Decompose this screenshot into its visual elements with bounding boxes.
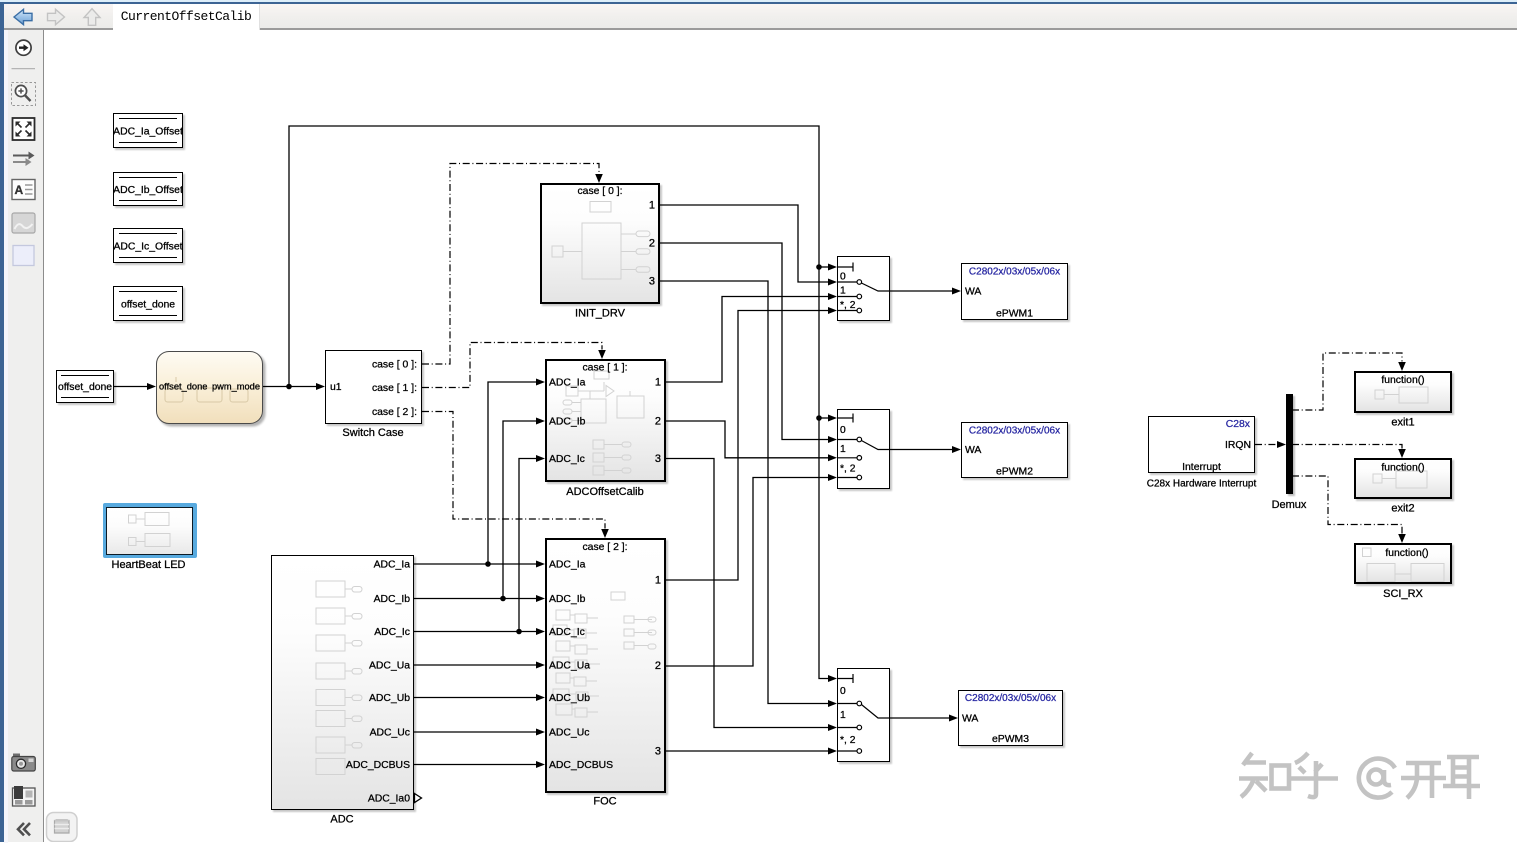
wire control trunk to switches [289, 126, 829, 679]
window chrome: top dark blue border [0, 2, 1517, 4]
data store read offset_done [56, 370, 114, 403]
block ePWM1 [961, 263, 1068, 320]
data store memory offset_done [113, 286, 183, 321]
wire control branch to switch2 [819, 417, 829, 419]
sidebar icon: light square [13, 246, 34, 266]
switch2 internals [838, 414, 853, 423]
ghost preview ADC [316, 581, 345, 597]
wire offset_done read to chart [114, 386, 148, 388]
ghost preview SCI_RX [1363, 548, 1372, 557]
wire INIT_DRV out3 to switch3 port0 [660, 281, 829, 704]
block ePWM3 [958, 690, 1063, 746]
window chrome: left dark blue border [0, 2, 4, 842]
dashdot case2 to FOC [422, 412, 605, 529]
wire ADCOffsetCalib out3 to switch3 port1 [666, 459, 829, 728]
ADC_Ia0 unconnected output port chevron [415, 794, 422, 803]
function-call subsystem exit2 [1354, 458, 1452, 499]
dashdot case0 to INIT_DRV [422, 164, 599, 365]
junction dots [286, 384, 292, 390]
navigation tab (active) CurrentOffsetCalib [113, 4, 260, 30]
wire ADC_Ub to FOC [414, 697, 537, 699]
wire switch1 to ePWM1 [890, 290, 953, 292]
sidebar icon: camera [13, 754, 20, 758]
subsystem ADCOffsetCalib [545, 359, 666, 482]
wire ADC_DCBUS to FOC [414, 764, 537, 766]
sidebar icon: collapse chevrons [18, 823, 30, 835]
toolbar background [4, 4, 1517, 28]
subsystem HeartBeat LED [106, 507, 193, 555]
left sidebar background [8, 30, 44, 842]
ghost preview ADCOffsetCalib [594, 371, 609, 379]
subsystem ADC [271, 555, 414, 810]
subsystem Switch Case [325, 350, 422, 424]
selection frame HeartBeat LED [103, 503, 197, 558]
bottom data button [47, 813, 78, 842]
subsystem FOC [545, 538, 666, 793]
toolbar up arrow (gray) [84, 9, 100, 26]
sidebar icon: zoom magnifier with dashed frame [12, 83, 36, 106]
arrowheads down-pointing [595, 174, 603, 183]
sidebar icon: double arrow [13, 155, 29, 157]
wire chart output to Switch Case u1 [263, 386, 317, 388]
function-call subsystem exit1 [1354, 371, 1452, 413]
sidebar separator [12, 68, 36, 70]
wire ADCOffsetCalib out1 to switch1 port1 [666, 297, 829, 383]
stateflow chart pwm_mode [156, 351, 263, 424]
multiport switch 2 [837, 409, 890, 489]
function-call subsystem SCI_RX [1354, 543, 1452, 584]
data store memory ADC_Ic_Offset [113, 228, 183, 263]
wire ADC_Ua to FOC [414, 664, 537, 666]
wire ADC_Ia to FOC and branch to ADCOffsetCalib [414, 382, 537, 564]
dashdot demux to SCI_RX [1292, 476, 1402, 534]
ghost preview exit1 [1375, 390, 1384, 399]
ghost preview chart (warm) [165, 377, 248, 402]
wire switch3 to ePWM3 [890, 717, 950, 719]
wire control branch to switch1 [819, 266, 829, 268]
wire ADCOffsetCalib out2 to switch2 port1 [666, 421, 829, 458]
demux bar [1286, 394, 1293, 494]
toolbar forward arrow (gray) [48, 9, 65, 24]
wire ADC_Uc to FOC [414, 731, 537, 733]
multiport switch 1 [837, 256, 890, 321]
data store memory ADC_Ib_Offset [113, 172, 183, 206]
block C28x Hardware Interrupt [1148, 416, 1255, 473]
ghost preview FOC [611, 592, 625, 600]
arrowheads right-pointing [147, 383, 156, 390]
switch3 internals [838, 674, 853, 683]
sidebar icon: image [12, 213, 35, 233]
switch1 internals [838, 263, 853, 272]
sidebar icon: circled arrow [16, 40, 31, 55]
dashdot demux to exit2 [1292, 445, 1402, 449]
window chrome: left inner light strip [4, 30, 8, 843]
wire ADC_Ic to FOC and branch [414, 459, 537, 632]
sidebar icon: model browser [13, 788, 36, 806]
wire ADC_Ib to FOC and branch [414, 421, 537, 599]
data store memory ADC_Ia_Offset [113, 113, 183, 148]
window chrome: top light strip [0, 0, 1517, 2]
sidebar icon: fit to view [13, 118, 35, 140]
dashdot case1 to ADCOffsetCalib [422, 343, 602, 388]
wire FOC out2 to switch2 port2 [666, 478, 829, 667]
ghost preview INIT_DRV [590, 202, 611, 213]
toolbar bottom separator line [4, 28, 1517, 29]
multiport switch 3 [837, 668, 890, 762]
sidebar icon: annotation A [12, 180, 35, 200]
block ePWM2 [961, 422, 1068, 478]
watermark 知乎 @开耳 [1239, 753, 1480, 799]
wire INIT_DRV out2 to switch2 port0 [660, 243, 829, 440]
ghost preview exit2 [1373, 474, 1382, 483]
wire INIT_DRV out1 to switch1 port0 [660, 205, 829, 282]
wire FOC out1 to switch1 port2 [666, 311, 829, 581]
dashdot IRQN to Demux [1255, 444, 1278, 446]
dashdot demux to exit1 [1292, 353, 1402, 410]
toolbar back arrow (blue) [14, 9, 32, 24]
subsystem INIT_DRV [540, 183, 660, 304]
wire switch2 to ePWM2 [890, 449, 953, 451]
ghost preview HeartBeat LED [129, 515, 137, 523]
wire FOC out3 to switch3 port2 [666, 750, 829, 752]
